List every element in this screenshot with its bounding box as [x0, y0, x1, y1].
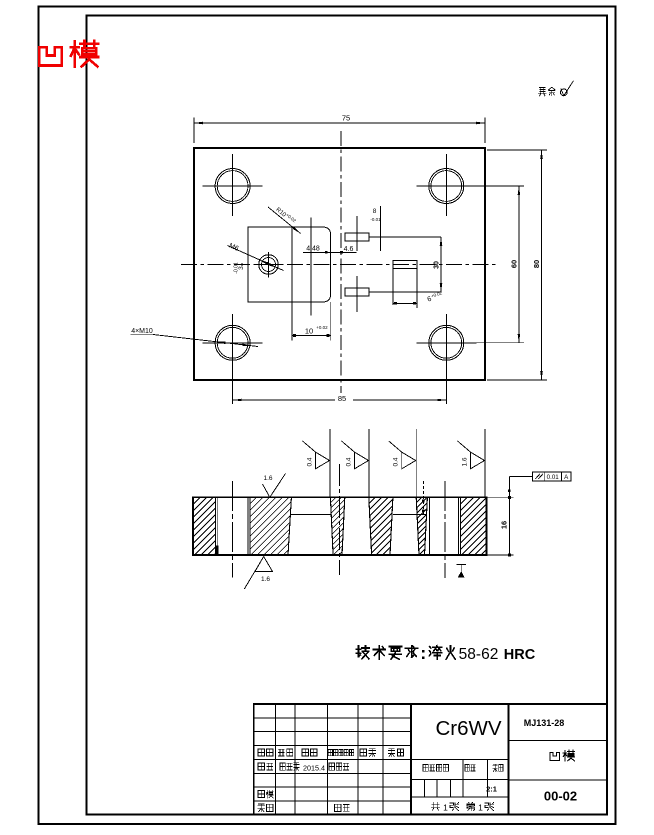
black tick at left hole bottom	[215, 546, 218, 555]
roughness symbol circle-check at top right	[560, 89, 567, 96]
svg-text:0.4: 0.4	[307, 457, 314, 466]
dim 16 thickness: extensions	[486, 496, 513, 498]
svg-text:HRC: HRC	[504, 647, 536, 663]
bolt hole TL: inner circle	[217, 171, 248, 202]
section right hole centerline	[444, 481, 446, 578]
svg-text:75: 75	[342, 114, 350, 123]
svg-text:85: 85	[338, 394, 346, 403]
section: body outline	[193, 497, 487, 555]
tiny arrow on centerline at pocket edge	[241, 263, 248, 265]
roughness flag symbol 1	[316, 452, 330, 469]
extension from upper slot to 30-dim	[369, 236, 441, 238]
bolt hole BL: crosshair	[203, 342, 263, 344]
cavity shelf line right	[393, 514, 427, 516]
dim 30 vertical line	[440, 237, 442, 292]
dim 6 under center slot	[393, 302, 417, 304]
svg-text:1.6: 1.6	[462, 457, 469, 466]
extension line below pocket right	[330, 302, 332, 341]
svg-text:0.01: 0.01	[547, 474, 560, 481]
svg-text:1: 1	[478, 803, 483, 813]
svg-text:80: 80	[532, 260, 541, 268]
title block left grid rows	[254, 717, 411, 719]
roughness check on section top-left surface	[263, 474, 286, 498]
svg-text:+0.02: +0.02	[316, 325, 328, 330]
bolt hole TR: inner circle	[431, 171, 462, 202]
small threaded hole in pocket: outer circle	[259, 255, 279, 275]
svg-text:30: 30	[433, 261, 440, 269]
stage mark header	[423, 764, 428, 771]
small hole crosshair	[268, 252, 270, 278]
bolt hole BR: outer circle	[429, 325, 464, 360]
dim 80 right: extensions from plate corners	[487, 149, 547, 151]
bolt hole BR: crosshair	[416, 342, 476, 344]
leader to parallelism tolerance box	[509, 476, 532, 478]
bolt hole TL: crosshair	[203, 185, 263, 187]
svg-text:0.4: 0.4	[346, 457, 353, 466]
bolt hole TR: outer circle	[429, 169, 464, 204]
top-right default roughness note: 其余 + symbol	[538, 88, 546, 96]
bolt hole TR: crosshair	[416, 185, 476, 187]
dim 80 line	[541, 150, 543, 380]
header row: biao-ji chu-shu fen-qu etc	[258, 749, 264, 756]
dim 85 bottom: line	[233, 399, 447, 401]
pocket: left rectangle cavity	[248, 227, 292, 302]
leader M6 diagonal through small hole	[228, 246, 284, 271]
technical requirements text: CJK part	[356, 646, 369, 659]
weight header	[465, 764, 469, 771]
section center dash-dot line	[338, 464, 340, 575]
svg-text:0.4: 0.4	[393, 457, 400, 466]
svg-text:00-02: 00-02	[544, 789, 577, 804]
bolt hole BL: outer circle	[215, 325, 250, 360]
roughness flag symbol 4	[471, 452, 485, 469]
small threaded hole: inner circle	[262, 258, 276, 272]
small revision cells	[423, 779, 425, 797]
slot upper rectangle	[345, 233, 369, 241]
center tapered punch piece (hatched)	[330, 497, 344, 555]
dim 4.48 horizontal line at pocket right	[303, 251, 357, 253]
dim 75 top: extension lines	[193, 118, 195, 144]
bolt hole TL: outer circle	[215, 169, 250, 204]
slot lower rectangle	[345, 288, 369, 296]
extension below center slot right	[416, 269, 418, 309]
svg-text:4×M10: 4×M10	[131, 328, 153, 335]
title block main vertical dividers	[410, 704, 412, 815]
slot center-right rectangle	[393, 261, 417, 269]
audit row: shen-he	[258, 790, 264, 797]
parallelism tolerance frame box	[532, 472, 571, 481]
svg-text:-0.01: -0.01	[370, 217, 381, 222]
section left hole counterbore double lines	[215, 497, 217, 555]
svg-text:60: 60	[510, 260, 519, 268]
extension line x=311 through pocket	[310, 218, 312, 316]
short extension line x=380.5	[380, 206, 382, 251]
svg-text:1.6: 1.6	[261, 576, 270, 583]
extension from lower slot to 30-dim	[369, 291, 441, 293]
bolt hole BR crosshair vertical + 85-dim extension	[445, 314, 447, 404]
roughness flag symbol 3	[402, 452, 416, 469]
tapered piece 3 right (hatched)	[416, 497, 427, 555]
svg-text:16: 16	[500, 521, 509, 529]
dim 10 under pocket: line and ticks	[292, 335, 331, 337]
title block right column rows	[509, 739, 608, 741]
svg-text:10: 10	[305, 327, 313, 336]
section right hole edges	[428, 497, 430, 555]
title block right-middle columns	[462, 760, 464, 798]
svg-text:2015.4: 2015.4	[303, 764, 325, 773]
title block outline	[254, 704, 607, 815]
tapered piece 2 (hatched)	[369, 497, 393, 555]
extension below center slot left	[392, 269, 394, 306]
title block left grid columns	[275, 704, 277, 815]
svg-text:Cr6WV: Cr6WV	[435, 717, 501, 740]
center horizontal dash-dot line	[181, 264, 497, 266]
bolt hole BL: inner circle	[217, 327, 248, 358]
cavity shelf line left	[290, 514, 330, 516]
dim 85 label	[335, 393, 353, 402]
title block right-middle rows	[411, 759, 509, 761]
svg-text:4.48: 4.48	[306, 246, 320, 253]
colon	[422, 650, 425, 653]
slot lower crosshair vertical	[356, 276, 358, 312]
red stamp text: 凹模	[39, 47, 62, 65]
part name 凹模 in title block	[550, 752, 560, 760]
dim 16 line	[508, 477, 510, 555]
design row: she-ji name date biao-zhun-hua	[258, 763, 264, 770]
svg-text:1.6: 1.6	[263, 475, 272, 482]
inner border frame	[87, 16, 608, 815]
datum A flag below section right	[456, 564, 466, 566]
process row: gong-yi and pi-zhun	[258, 804, 264, 812]
sheet num: di 1 zhang	[467, 802, 475, 810]
hidden edge short line with tick dots	[423, 481, 425, 515]
bolt hole BR: inner circle	[431, 327, 462, 358]
svg-text:1: 1	[443, 803, 448, 813]
svg-text:2:1: 2:1	[486, 785, 497, 794]
dim 75 line	[194, 122, 485, 124]
dim 60 right: extensions from hole centers	[464, 185, 524, 187]
section left hole centerline	[232, 481, 234, 578]
leader 4xM10 to bolt hole BL	[153, 335, 258, 347]
svg-text:4.6: 4.6	[344, 246, 354, 253]
svg-text:MJ131-28: MJ131-28	[524, 718, 565, 728]
center vertical dash-dot line	[340, 131, 342, 398]
svg-text:58-62: 58-62	[459, 646, 499, 663]
bolt hole BL crosshair vertical + 85-dim extension	[232, 314, 234, 404]
roughness flag lines above section	[329, 429, 331, 497]
ratio header	[493, 764, 497, 771]
svg-text:8: 8	[373, 208, 377, 215]
pocket: right rounded-rectangle cavity	[292, 227, 331, 302]
dim 60 line	[518, 186, 520, 343]
cavity left wall (slanted)	[288, 497, 291, 555]
svg-text:-0.01: -0.01	[234, 262, 240, 274]
top view: main plate outline	[194, 148, 485, 380]
roughness symbol below section bottom	[255, 557, 273, 572]
diagonal leader to pocket corner radius	[268, 207, 301, 234]
roughness flag symbol 2	[355, 452, 369, 469]
slot upper crosshair vertical	[356, 216, 358, 251]
sheet count: gong 1 zhang	[431, 802, 439, 810]
extension line below pocket left	[291, 302, 293, 341]
